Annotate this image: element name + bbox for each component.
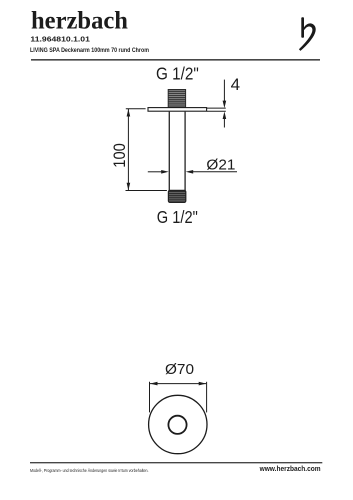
svg-text:www.herzbach.com: www.herzbach.com	[259, 466, 321, 473]
footer rule	[30, 462, 322, 463]
svg-text:Modell-, Programm- und technis: Modell-, Programm- und technische Änderu…	[30, 467, 149, 473]
dimension Ø21 (tube diameter)	[148, 170, 237, 174]
flange plate	[148, 108, 207, 112]
dimension 4 (flange thickness)	[207, 80, 226, 128]
bottom thread tip	[168, 190, 185, 202]
tube right wall	[184, 111, 186, 190]
svg-text:11.964810.1.01: 11.964810.1.01	[30, 35, 90, 44]
svg-text:G 1/2": G 1/2"	[157, 207, 198, 227]
svg-text:Ø70: Ø70	[165, 361, 194, 378]
outer circle (bottom view flange)	[149, 395, 207, 453]
svg-text:G 1/2": G 1/2"	[156, 64, 199, 84]
logo mark (herzbach h-symbol)	[299, 17, 316, 51]
inner circle (tube bore)	[168, 416, 186, 434]
svg-text:LIVING SPA Deckenarm 100mm 70: LIVING SPA Deckenarm 100mm 70 rund Chrom	[30, 47, 150, 54]
svg-text:100: 100	[111, 143, 129, 168]
top thread stub	[168, 90, 185, 108]
svg-text:herzbach: herzbach	[31, 8, 128, 35]
dimension Ø70 (flange diameter)	[150, 382, 207, 413]
tube left wall	[168, 111, 170, 190]
dimension 100 (arm length)	[126, 109, 167, 191]
svg-text:4: 4	[231, 75, 240, 94]
svg-text:Ø21: Ø21	[206, 157, 235, 174]
header rule	[31, 59, 320, 60]
